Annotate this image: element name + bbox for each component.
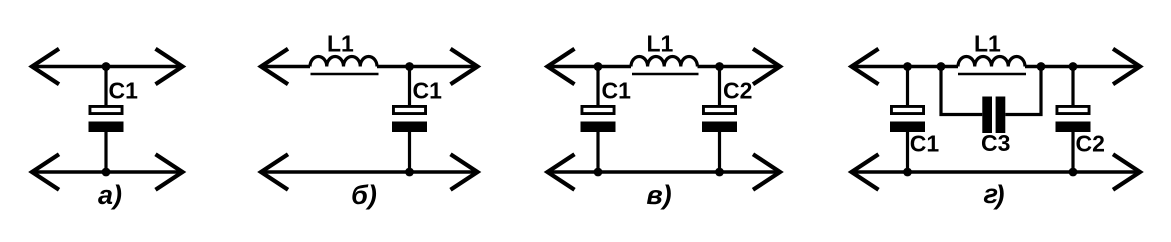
- node top C2g: [1069, 62, 1078, 71]
- capacitor C1 (circuit g) top plate: [891, 106, 923, 113]
- wire C3 branch left drop: [941, 67, 982, 115]
- svg-text:а): а): [98, 180, 122, 210]
- capacitor C1 (circuit b) bottom plate: [392, 122, 427, 133]
- arrow bottom-left b: [261, 154, 288, 190]
- wire bottom rail a: [33, 170, 183, 173]
- node top b: [405, 62, 414, 71]
- capacitor C1 (circuit a) bottom plate: [89, 122, 124, 133]
- arrow top-right a: [156, 49, 183, 85]
- node top L-right g: [1037, 62, 1046, 71]
- svg-text:L1: L1: [647, 31, 674, 57]
- wire top rail b right: [377, 65, 477, 68]
- arrow bottom-left v: [548, 154, 575, 190]
- arrow top-right v: [753, 49, 780, 85]
- arrow top-left g: [852, 49, 879, 85]
- capacitor C1 (circuit v) top plate: [582, 106, 614, 113]
- svg-text:C1: C1: [602, 78, 632, 104]
- inductor L1 (circuit b): [310, 57, 377, 67]
- inductor L1 (circuit g): [958, 57, 1025, 67]
- node bottom-left v: [594, 168, 603, 177]
- wire top rail v right: [698, 65, 780, 68]
- wire cap C1v lower lead: [596, 132, 599, 173]
- node bottom C2g: [1069, 168, 1078, 177]
- wire top rail a: [33, 65, 183, 68]
- wire top rail g right: [1025, 65, 1140, 68]
- wire cap C1b upper lead: [408, 67, 411, 106]
- wire C3 branch right drop: [1005, 67, 1041, 115]
- arrow top-left v: [548, 49, 575, 85]
- wire cap C2g lower lead: [1071, 132, 1074, 173]
- inductor L1 (circuit b) core line: [311, 73, 379, 76]
- node top a: [102, 62, 111, 71]
- svg-text:C2: C2: [723, 78, 752, 104]
- svg-text:в): в): [646, 180, 671, 210]
- capacitor C2 (circuit g) bottom plate: [1056, 122, 1091, 133]
- wire bottom rail g: [852, 170, 1140, 173]
- inductor L1 (circuit v) core line: [632, 73, 699, 76]
- capacitor C1 (circuit g) bottom plate: [890, 122, 925, 133]
- node top L-left g: [937, 62, 946, 71]
- wire cap C1v upper lead: [596, 67, 599, 106]
- svg-text:C1: C1: [109, 78, 139, 104]
- arrow bottom-left g: [852, 154, 879, 190]
- svg-text:L1: L1: [327, 31, 354, 57]
- capacitor C2 (circuit v) bottom plate: [702, 122, 737, 133]
- svg-text:C1: C1: [910, 131, 940, 157]
- capacitor C1 (circuit a) top plate: [90, 106, 122, 113]
- wire cap C2g upper lead: [1071, 67, 1074, 106]
- svg-text:C2: C2: [1076, 131, 1105, 157]
- wire top rail v left: [548, 65, 631, 68]
- capacitor C2 (circuit v) top plate: [703, 106, 735, 113]
- capacitor C3 left plate: [982, 97, 992, 134]
- wire bottom rail v: [548, 170, 780, 173]
- capacitor C2 (circuit g) top plate: [1057, 106, 1089, 113]
- node bottom-right v: [715, 168, 724, 177]
- arrow top-right g: [1113, 49, 1140, 85]
- capacitor C1 (circuit b) top plate: [393, 106, 425, 113]
- wire cap C1b lower lead: [408, 132, 411, 173]
- arrow bottom-right b: [451, 154, 478, 190]
- capacitor C3 right plate: [996, 97, 1006, 134]
- node top-left v: [594, 62, 603, 71]
- node top C1g: [903, 62, 912, 71]
- node bottom b: [405, 168, 414, 177]
- wire top rail b left: [262, 65, 311, 68]
- arrow top-right b: [451, 49, 478, 85]
- wire cap C1g lower lead: [906, 132, 909, 173]
- arrow top-left a: [32, 49, 59, 85]
- arrow bottom-right v: [753, 154, 780, 190]
- inductor L1 (circuit g) core line: [958, 73, 1026, 76]
- arrow top-left b: [261, 49, 288, 85]
- node top-right v: [715, 62, 724, 71]
- wire cap C1a upper lead: [104, 67, 107, 106]
- svg-text:L1: L1: [974, 31, 1001, 57]
- arrow bottom-left a: [32, 154, 59, 190]
- wire bottom rail b: [262, 170, 478, 173]
- svg-text:C1: C1: [413, 78, 443, 104]
- wire top rail g left: [852, 65, 958, 68]
- caption g) letter g (cursive reversed-s form, mirrored s): [981, 178, 1000, 209]
- wire cap C1a lower lead: [104, 132, 107, 173]
- inductor L1 (circuit v): [631, 57, 697, 67]
- node bottom a: [102, 168, 111, 177]
- arrow bottom-right a: [156, 154, 183, 190]
- wire cap C2v upper lead: [718, 67, 721, 106]
- node bottom C1g: [903, 168, 912, 177]
- arrow bottom-right g: [1113, 154, 1140, 190]
- svg-text:б): б): [351, 180, 377, 210]
- wire cap C2v lower lead: [718, 132, 721, 173]
- capacitor C1 (circuit v) bottom plate: [581, 122, 616, 133]
- svg-text:C3: C3: [981, 130, 1010, 156]
- wire cap C1g upper lead: [906, 67, 909, 106]
